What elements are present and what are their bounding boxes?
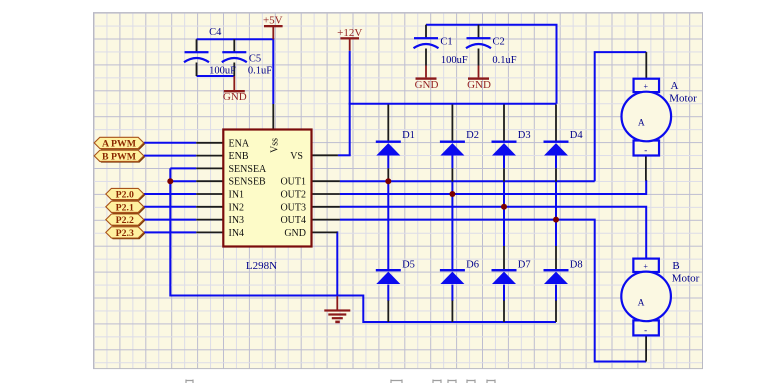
wire +12V bus — [349, 103, 557, 105]
pin stub OUT4 — [312, 219, 340, 221]
wire SENSEB stub — [170, 180, 196, 182]
pin stub D4 anode — [555, 168, 557, 181]
wire +12V down to VS — [349, 51, 351, 156]
pin stub D6 anode — [451, 301, 453, 323]
svg-text:100uF: 100uF — [441, 55, 468, 66]
pin stub D3 top — [503, 105, 505, 141]
pin stub C2 top — [478, 25, 480, 39]
pin stub OUT3 — [312, 206, 340, 208]
op chip U1 L298N body — [223, 130, 311, 247]
wire D7 anode — [503, 285, 505, 302]
pin stub C1 top — [425, 25, 427, 39]
svg-text:A: A — [671, 80, 679, 92]
port A PWM — [94, 137, 145, 149]
wire VS pin to +12V — [338, 154, 351, 156]
svg-text:GND: GND — [415, 79, 439, 91]
wire diode column D2-D6 — [451, 155, 453, 168]
power GND under C1 — [425, 66, 427, 78]
svg-text:0.1uF: 0.1uF — [492, 55, 516, 66]
wire C1/C2 top rail to +12V bus — [426, 25, 557, 104]
svg-text:B: B — [672, 260, 679, 272]
pin stub D2 anode — [451, 168, 453, 181]
pin stub ENA — [196, 142, 223, 144]
pin stub D2 top — [451, 105, 453, 141]
svg-text:IN1: IN1 — [229, 190, 245, 201]
diode D1 — [376, 141, 401, 156]
pin stub Vss — [272, 104, 274, 130]
junction D4-OUT4 — [553, 217, 559, 223]
wire D6 anode — [451, 285, 453, 302]
wire GND pin down to ground — [336, 231, 338, 296]
pin stub C5 top — [233, 39, 235, 52]
svg-text:GND: GND — [223, 91, 247, 103]
svg-text:+: + — [644, 82, 649, 91]
diode D8 — [544, 269, 569, 284]
svg-text:IN2: IN2 — [229, 202, 245, 213]
pin stub motor A minus — [645, 156, 647, 181]
wire D5 anode — [387, 285, 389, 302]
svg-text:P2.2: P2.2 — [116, 215, 134, 226]
pin stub D7 top — [503, 246, 505, 270]
wire P2.2 to IN3 — [144, 219, 197, 221]
wire SENSEA stub — [170, 167, 196, 169]
svg-text:D8: D8 — [570, 259, 583, 270]
junction D3-OUT3 — [501, 204, 507, 210]
diode D7 — [492, 269, 517, 284]
port P2.1 — [106, 201, 145, 213]
power +5V — [263, 15, 283, 40]
pin stub C2 bottom — [478, 49, 480, 66]
svg-text:ENA: ENA — [229, 138, 250, 149]
pin stub C4 bottom — [196, 63, 198, 77]
diode D4 — [544, 141, 569, 156]
svg-text:D5: D5 — [402, 259, 415, 270]
svg-text:GND: GND — [467, 79, 491, 91]
pin stub D8 top — [555, 246, 557, 270]
svg-text:A: A — [638, 119, 645, 129]
wire P2.0 to IN1 — [144, 193, 197, 195]
svg-text:P2.3: P2.3 — [116, 228, 134, 239]
power GND under C5 — [233, 76, 235, 90]
svg-text:C1: C1 — [440, 36, 452, 47]
svg-text:+5V: +5V — [263, 15, 283, 27]
svg-text:ENB: ENB — [229, 151, 249, 162]
svg-text:Vss: Vss — [270, 138, 281, 153]
svg-text:+12V: +12V — [337, 27, 362, 39]
junction SENSE — [167, 178, 173, 184]
power +12V — [337, 27, 362, 51]
pin stub D1 anode — [387, 168, 389, 181]
pin stub SENSEB — [196, 180, 223, 182]
svg-text:SENSEA: SENSEA — [229, 164, 268, 175]
diode D5 — [376, 269, 401, 284]
svg-text:D4: D4 — [570, 130, 584, 141]
svg-text:IN4: IN4 — [229, 228, 245, 239]
wire OUT2 bus to motor A minus — [340, 180, 646, 194]
wire diode column D1-D5 — [387, 155, 389, 168]
port P2.0 — [106, 188, 145, 200]
svg-text:VS: VS — [290, 151, 303, 162]
pin stub D5 anode — [387, 301, 389, 323]
pin stub C5 bottom — [233, 63, 235, 77]
pin stub motor A plus — [645, 52, 647, 79]
svg-text:IN3: IN3 — [229, 215, 245, 226]
capacitor C2 — [466, 37, 491, 48]
pin stub IN1 — [196, 193, 223, 195]
motor A symbol — [622, 79, 672, 156]
pin stub D1 top — [387, 105, 389, 141]
junction D2-OUT2 — [449, 191, 455, 197]
svg-text:100uF: 100uF — [209, 65, 236, 76]
junction D1-OUT1 — [385, 178, 391, 184]
svg-text:P2.0: P2.0 — [116, 190, 134, 201]
pin stub C1 bottom — [425, 49, 427, 66]
svg-text:D6: D6 — [466, 259, 479, 270]
pin stub IN4 — [196, 231, 223, 233]
pin stub D3 anode — [503, 168, 505, 181]
svg-text:A: A — [638, 298, 645, 308]
pin stub C4 top — [196, 39, 198, 52]
svg-text:P2.1: P2.1 — [116, 202, 134, 213]
pin stub D7 anode — [503, 301, 505, 323]
pin stub GND — [312, 231, 338, 233]
svg-text:0.1uF: 0.1uF — [248, 65, 272, 76]
svg-text:B PWM: B PWM — [102, 151, 136, 162]
svg-text:L298N: L298N — [246, 260, 277, 272]
caption fragment marks — [186, 380, 495, 383]
svg-text:-: - — [644, 325, 647, 335]
wire OUT4 bus to motor B minus — [340, 220, 646, 362]
pin stub VS — [312, 154, 338, 156]
svg-text:Motor: Motor — [669, 93, 697, 105]
wire D8 anode — [555, 285, 557, 302]
wire sense net down and to ground bus — [170, 168, 556, 322]
svg-text:C2: C2 — [492, 36, 504, 47]
wire P2.1 to IN2 — [144, 206, 197, 208]
diode D6 — [440, 269, 465, 284]
port P2.3 — [106, 227, 145, 239]
svg-text:OUT2: OUT2 — [280, 190, 306, 201]
wire B PWM to ENB — [144, 155, 197, 157]
pin stub OUT1 — [312, 180, 340, 182]
pin stub D8 anode — [555, 301, 557, 323]
wire +5V rail to C4/C5 and Vss — [197, 39, 274, 104]
wire diode column D4-D8 — [555, 155, 557, 168]
svg-text:Motor: Motor — [672, 273, 700, 285]
svg-text:A PWM: A PWM — [102, 139, 136, 150]
svg-text:+: + — [643, 262, 648, 271]
svg-text:D1: D1 — [402, 130, 415, 141]
capacitor C4 — [184, 51, 209, 62]
svg-text:C5: C5 — [249, 53, 261, 64]
svg-text:D3: D3 — [518, 130, 531, 141]
power GND under C2 — [478, 66, 480, 78]
pin stub OUT2 — [312, 193, 340, 195]
svg-text:OUT1: OUT1 — [280, 177, 306, 188]
svg-text:C4: C4 — [209, 27, 222, 38]
wire OUT1 bus to motor A plus — [340, 180, 595, 182]
pin stub IN2 — [196, 206, 223, 208]
wire P2.3 to IN4 — [144, 231, 197, 233]
capacitor C1 — [414, 37, 439, 48]
port B PWM — [94, 150, 145, 162]
wire A PWM to ENA — [144, 142, 197, 144]
pin stub ENB — [196, 155, 223, 157]
pin stub D4 top — [555, 105, 557, 141]
diode D2 — [440, 141, 465, 156]
diode D3 — [492, 141, 517, 156]
svg-text:D7: D7 — [518, 259, 531, 270]
pin stub IN3 — [196, 219, 223, 221]
svg-text:GND: GND — [284, 228, 306, 239]
svg-text:SENSEB: SENSEB — [229, 177, 267, 188]
svg-text:OUT3: OUT3 — [280, 202, 306, 213]
svg-text:-: - — [644, 145, 647, 155]
wire OUT3 bus to motor B plus — [340, 207, 646, 259]
motor B symbol — [621, 259, 671, 336]
capacitor C5 — [222, 51, 247, 62]
wire C4/C5 bottom rail — [197, 75, 235, 77]
ground signal symbol — [324, 296, 350, 323]
svg-text:D2: D2 — [466, 130, 479, 141]
wire diode column D3-D7 — [503, 155, 505, 168]
pin stub SENSEA — [196, 167, 223, 169]
port P2.2 — [106, 214, 145, 226]
svg-text:OUT4: OUT4 — [280, 215, 306, 226]
pin stub motor B minus — [645, 336, 647, 362]
